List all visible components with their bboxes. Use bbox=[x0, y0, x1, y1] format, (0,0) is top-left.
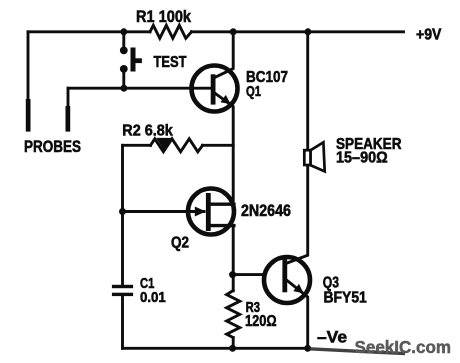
svg-text:PROBES: PROBES bbox=[24, 137, 81, 156]
svg-text:BFY51: BFY51 bbox=[324, 290, 368, 307]
svg-text:–Ve: –Ve bbox=[317, 329, 347, 347]
svg-text:Q2: Q2 bbox=[171, 235, 189, 252]
svg-text:R1 100k: R1 100k bbox=[136, 8, 192, 26]
svg-text:15–90Ω: 15–90Ω bbox=[336, 150, 388, 167]
svg-text:SeekIC.com: SeekIC.com bbox=[355, 337, 452, 357]
svg-text:2N2646: 2N2646 bbox=[241, 201, 291, 220]
svg-text:R2 6.8k: R2 6.8k bbox=[122, 123, 173, 140]
svg-text:+9V: +9V bbox=[416, 26, 442, 43]
svg-text:Q1: Q1 bbox=[246, 83, 261, 100]
svg-text:0.01: 0.01 bbox=[140, 289, 166, 306]
svg-text:TEST: TEST bbox=[154, 54, 187, 71]
svg-text:120Ω: 120Ω bbox=[245, 313, 277, 330]
